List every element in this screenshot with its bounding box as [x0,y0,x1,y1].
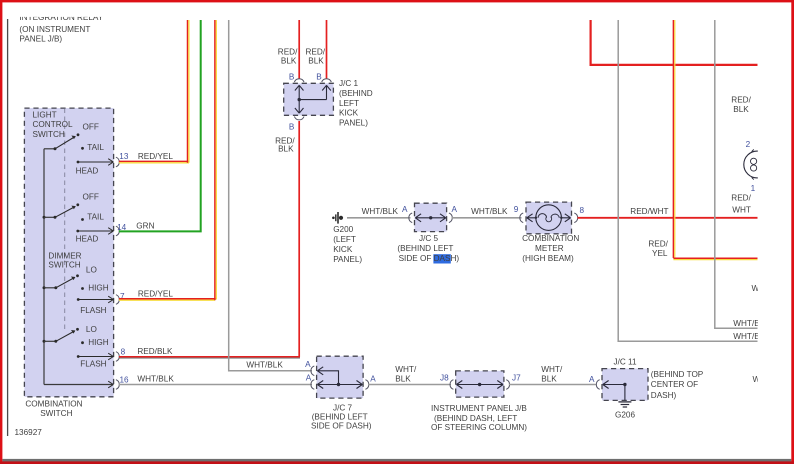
wire WHT/BLK kick panel vertical to J/C7 upper pin [229,20,312,371]
svg-text:B: B [316,73,322,82]
svg-text:PANEL): PANEL) [333,255,362,264]
wire RED/BLK left into J/C1 [278,20,299,79]
pin 14 [78,223,127,236]
svg-text:GRN: GRN [136,222,154,231]
svg-text:B: B [289,123,295,132]
wire RED/YEL pin7 to top [119,20,216,300]
wire RED/YEL pin13 to top [119,20,189,163]
svg-text:BLK: BLK [541,375,557,384]
svg-text:KICK: KICK [333,245,353,254]
svg-text:HIGH: HIGH [88,283,109,292]
svg-text:RED/WHT: RED/WHT [630,207,668,216]
svg-text:SWITCH: SWITCH [33,130,65,139]
wire RED/WHT meter to right [578,207,758,218]
svg-text:(BEHIND: (BEHIND [339,89,373,98]
wire RED/BLK right into J/C1 [306,20,327,79]
clipped label fragment lower [753,375,790,384]
svg-text:YEL: YEL [652,249,668,258]
svg-text:RED/: RED/ [731,194,751,203]
instrument panel junction block [431,371,527,432]
pin 7 [78,292,125,304]
svg-text:COMBINATION: COMBINATION [25,400,82,409]
svg-text:BLK: BLK [281,56,297,65]
svg-text:BLK: BLK [278,145,294,154]
svg-text:LEFT: LEFT [339,99,359,108]
svg-text:CONTROL: CONTROL [33,120,73,129]
combination switch body [24,108,113,397]
svg-text:WHT: WHT [732,205,751,214]
svg-text:G206: G206 [615,410,635,419]
dimmer switch pole 1 [43,266,109,315]
svg-text:INSTRUMENT PANEL J/B: INSTRUMENT PANEL J/B [431,404,527,413]
svg-text:(HIGH BEAM): (HIGH BEAM) [522,254,574,263]
svg-text:J/C 11: J/C 11 [614,358,638,367]
svg-text:RED/: RED/ [278,47,298,56]
svg-text:A: A [305,360,311,369]
svg-text:LO: LO [86,266,97,275]
svg-text:OFF: OFF [83,123,99,132]
clipped label fragment upper [752,284,789,293]
svg-text:CENTER OF: CENTER OF [651,380,698,389]
svg-text:136927: 136927 [15,428,43,437]
wire RED/BLK below J/C1 label [275,136,295,153]
svg-text:J8: J8 [440,373,449,382]
svg-text:HEAD: HEAD [76,235,99,244]
svg-text:FLASH: FLASH [80,306,106,315]
svg-text:A: A [589,375,595,384]
dimmer switch pole 2 [43,325,109,368]
svg-text:J/C 5: J/C 5 [419,234,439,243]
light control switch pole 2 [43,192,105,243]
svg-text:WHT/: WHT/ [395,365,417,374]
svg-text:13: 13 [119,152,129,161]
svg-text:OFF: OFF [83,192,99,201]
combination meter high beam indicator [520,202,585,263]
white clip margin right of diagram [758,3,791,459]
svg-text:16: 16 [120,375,130,384]
svg-text:RED/: RED/ [306,47,326,56]
svg-text:RED/YEL: RED/YEL [138,152,173,161]
svg-text:(BEHIND LEFT: (BEHIND LEFT [312,412,368,421]
diagram left edge line [7,19,9,436]
svg-text:WHT/BLK: WHT/BLK [137,375,174,384]
combination switch caption [25,400,82,419]
svg-text:A: A [306,373,312,382]
svg-text:LO: LO [86,325,97,334]
drawing number 136927 [15,428,43,437]
svg-text:SIDE OF DASH): SIDE OF DASH) [311,422,372,431]
svg-text:BLK: BLK [733,105,749,114]
svg-text:1: 1 [751,184,756,193]
svg-text:PANEL J/B): PANEL J/B) [19,35,62,44]
wire WHT/BLK J/C5 to combination meter [452,205,522,218]
label RED/WHT headlight pin 1 [731,194,751,215]
svg-text:WHT/BLK: WHT/BLK [471,207,508,216]
svg-text:HIGH: HIGH [88,338,109,347]
pin 13 [78,152,129,167]
label RED/BLK headlight pin 2 [731,95,751,114]
svg-text:A: A [402,205,408,214]
junction connector J/C 5 [397,203,459,263]
svg-text:9: 9 [514,205,519,214]
wire WHT second vertical right [715,20,770,328]
wire WHT/BLK pin16 to J/C7 [119,375,312,385]
svg-text:BLK: BLK [308,56,324,65]
svg-text:G200: G200 [333,225,353,234]
svg-text:WHT/BLK: WHT/BLK [362,207,399,216]
svg-text:METER: METER [535,244,564,253]
svg-text:KICK: KICK [339,109,359,118]
svg-text:RED/: RED/ [731,95,751,104]
svg-text:SIDE OF DASH): SIDE OF DASH) [399,254,460,263]
light control switch pole 1 [44,123,104,176]
wire WHT vertical to lower right [618,20,770,341]
svg-text:WHT/BLK: WHT/BLK [246,361,283,370]
svg-text:RED/YEL: RED/YEL [138,290,173,299]
svg-text:8: 8 [121,348,126,357]
svg-text:RED/: RED/ [648,239,668,248]
pin 8 [78,348,125,362]
svg-text:(ON INSTRUMENT: (ON INSTRUMENT [19,25,90,34]
window status bar [3,459,792,462]
svg-text:DASH): DASH) [651,391,677,400]
ground G200 [332,212,362,264]
svg-text:(BEHIND DASH, LEFT: (BEHIND DASH, LEFT [434,414,517,423]
svg-text:2: 2 [746,140,751,149]
svg-text:RED/BLK: RED/BLK [137,347,173,356]
svg-text:J/C 1: J/C 1 [339,79,359,88]
svg-text:A: A [452,205,458,214]
svg-text:TAIL: TAIL [87,143,104,152]
junction connector J/C 7 [305,356,376,430]
wire RED/BLK pin8 to J/C1 [119,121,300,358]
wire RED/YEL right vertical [648,20,757,260]
svg-text:HEAD: HEAD [76,166,99,175]
svg-text:J7: J7 [512,373,521,382]
svg-text:OF STEERING COLUMN): OF STEERING COLUMN) [431,423,527,432]
svg-text:DIMMER: DIMMER [48,251,81,260]
svg-text:(BEHIND LEFT: (BEHIND LEFT [397,244,453,253]
wire GRN pin14 to top [119,20,201,231]
svg-text:PANEL): PANEL) [339,118,368,127]
svg-text:FLASH: FLASH [80,359,106,368]
integration relay label [3,3,792,44]
svg-text:B: B [289,73,295,82]
svg-text:LIGHT: LIGHT [33,110,57,119]
svg-text:SWITCH: SWITCH [48,261,80,270]
pin 16 [44,375,129,389]
svg-text:8: 8 [580,206,585,215]
svg-text:BLK: BLK [395,375,411,384]
svg-text:(LEFT: (LEFT [333,235,356,244]
headlight bulb partial [744,140,771,193]
svg-text:COMBINATION: COMBINATION [522,234,579,243]
svg-text:A: A [370,375,376,384]
junction connector J/C 11 [596,358,703,401]
ground G206 [615,402,635,420]
svg-text:TAIL: TAIL [87,212,104,221]
wire WHT/BLK instrument panel J/B to J/C11 [509,365,597,384]
wire WHT/BLK J/C7 to instrument panel J/B [368,365,451,384]
switch common wire [43,149,45,385]
wire RED/BLK top right vertical [591,20,758,65]
svg-text:J/C 7: J/C 7 [333,404,353,413]
svg-text:WHT/: WHT/ [541,365,563,374]
wire WHT/BLK G200 to J/C5 [347,205,411,218]
junction connector J/C 1 [284,73,373,132]
svg-text:(BEHIND TOP: (BEHIND TOP [651,370,704,379]
svg-text:SWITCH: SWITCH [40,409,72,418]
